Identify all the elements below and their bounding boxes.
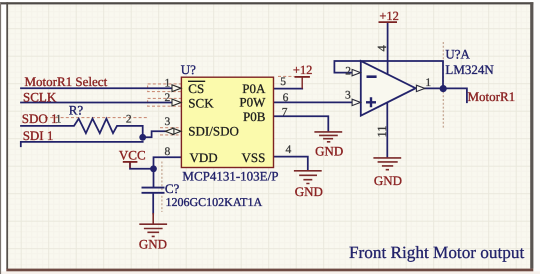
- svg-text:P0W: P0W: [239, 95, 266, 110]
- svg-text:MCP4131-103E/P: MCP4131-103E/P: [182, 168, 278, 183]
- svg-text:2: 2: [165, 92, 171, 104]
- svg-text:R?: R?: [69, 102, 84, 117]
- svg-text:P0A: P0A: [242, 81, 266, 96]
- svg-text:8: 8: [165, 146, 171, 158]
- svg-text:3: 3: [165, 116, 171, 128]
- svg-text:SDI 1: SDI 1: [23, 128, 54, 143]
- svg-text:MotorR1 Select: MotorR1 Select: [25, 74, 108, 89]
- svg-text:2: 2: [126, 113, 132, 125]
- svg-text:4: 4: [286, 144, 292, 156]
- svg-text:7: 7: [282, 106, 288, 118]
- svg-text:MotorR1: MotorR1: [468, 89, 516, 104]
- svg-text:GND: GND: [295, 184, 323, 199]
- svg-text:LM324N: LM324N: [445, 62, 494, 77]
- svg-text:U?: U?: [181, 62, 196, 77]
- svg-text:+12: +12: [293, 63, 313, 77]
- svg-text:GND: GND: [315, 143, 343, 158]
- svg-text:SCK: SCK: [188, 96, 214, 111]
- svg-text:CS: CS: [188, 81, 204, 96]
- svg-text:U?A: U?A: [445, 47, 470, 62]
- svg-text:GND: GND: [374, 173, 402, 188]
- svg-text:P0B: P0B: [243, 109, 266, 124]
- svg-text:1206GC102KAT1A: 1206GC102KAT1A: [166, 195, 263, 209]
- svg-text:1: 1: [425, 77, 431, 89]
- svg-text:VDD: VDD: [190, 150, 218, 165]
- svg-text:6: 6: [283, 92, 289, 104]
- svg-text:11: 11: [375, 125, 389, 137]
- svg-text:2: 2: [345, 66, 351, 78]
- svg-text:4: 4: [375, 45, 389, 52]
- svg-text:SCLK: SCLK: [23, 89, 57, 104]
- svg-text:+12: +12: [379, 9, 399, 23]
- svg-text:SDO 1: SDO 1: [22, 111, 58, 126]
- svg-text:Front Right Motor output: Front Right Motor output: [349, 243, 524, 262]
- svg-text:SDI/SDO: SDI/SDO: [188, 124, 239, 139]
- svg-text:VCC: VCC: [119, 147, 146, 162]
- svg-text:1: 1: [56, 114, 62, 126]
- svg-text:5: 5: [280, 76, 286, 88]
- svg-text:VSS: VSS: [242, 150, 266, 165]
- svg-text:3: 3: [345, 90, 351, 102]
- svg-text:GND: GND: [139, 237, 167, 252]
- svg-text:1: 1: [165, 78, 171, 90]
